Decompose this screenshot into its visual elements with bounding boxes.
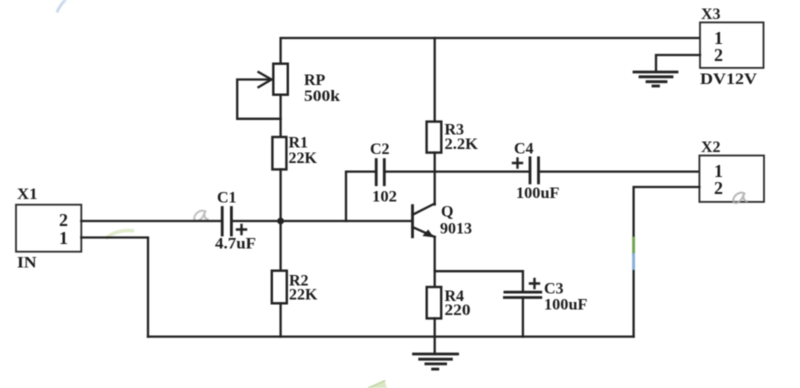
wire: R4 bottom through rail to ground xyxy=(434,318,436,354)
capacitor C4 100uF xyxy=(513,141,560,203)
capacitor C3 100uF xyxy=(504,271,587,336)
svg-text:4.7uF: 4.7uF xyxy=(215,236,256,253)
wire: top rail to R3 xyxy=(434,38,436,122)
wire: X2 pin 2 down to ground rail xyxy=(634,187,700,337)
wire: R1 bottom to node A xyxy=(279,169,281,221)
connector X3 (DV12V) xyxy=(700,6,764,88)
capacitor C2 102 xyxy=(370,141,397,206)
node A junction dot xyxy=(277,218,284,225)
capacitor C1 4.7uF xyxy=(215,190,256,253)
svg-text:100uF: 100uF xyxy=(544,297,588,314)
svg-text:IN: IN xyxy=(17,255,37,272)
resistor R1 22K xyxy=(272,135,317,170)
resistor R2 22K xyxy=(272,271,318,304)
svg-text:RP: RP xyxy=(304,72,326,89)
wire: emitter down to R4 xyxy=(434,237,436,287)
wire: node A to R2 top xyxy=(279,221,281,271)
svg-text:X1: X1 xyxy=(17,186,38,203)
svg-text:100uF: 100uF xyxy=(516,185,560,202)
svg-text:C2: C2 xyxy=(370,141,390,158)
svg-text:2: 2 xyxy=(59,210,68,230)
svg-text:102: 102 xyxy=(372,189,397,206)
wire: X1 pin 1 down to ground rail xyxy=(81,238,148,337)
wire: emitter node to C3 xyxy=(435,270,523,272)
svg-text:2.2K: 2.2K xyxy=(445,136,479,153)
wire: C1 to transistor base xyxy=(233,220,413,222)
wire: X3 pin 2 to ground xyxy=(656,55,700,72)
resistor R3 2.2K xyxy=(427,122,479,154)
wire: C2 right plate to C4 left plate xyxy=(386,170,529,172)
wire: C2 left leg down to base wire xyxy=(346,172,375,221)
wire: bottom ground rail xyxy=(148,335,634,337)
ground (near X3) xyxy=(634,72,677,86)
svg-text:22K: 22K xyxy=(289,287,318,304)
svg-text:DV12V: DV12V xyxy=(700,71,757,88)
wire: X1 pin 2 to C1 xyxy=(81,220,221,222)
wire: RP bottom to R1 top xyxy=(279,95,281,137)
svg-text:X2: X2 xyxy=(701,139,721,156)
svg-text:X3: X3 xyxy=(701,6,721,23)
svg-text:C1: C1 xyxy=(217,190,237,207)
svg-text:1: 1 xyxy=(59,228,68,248)
svg-text:2: 2 xyxy=(714,178,723,198)
wire: R3 bottom to collector xyxy=(434,153,436,205)
svg-text:500k: 500k xyxy=(304,88,340,105)
svg-text:Q: Q xyxy=(441,204,453,221)
wire: +12V top rail from RP to X3 pin 1 xyxy=(281,38,700,65)
wire: C4 to X2 pin 1 xyxy=(540,170,700,172)
potentiometer RP 500k xyxy=(237,64,340,119)
svg-text:22K: 22K xyxy=(289,150,318,167)
resistor R4 220 xyxy=(427,287,471,319)
svg-text:2: 2 xyxy=(714,45,723,65)
svg-text:9013: 9013 xyxy=(440,221,472,238)
wire: R2 bottom to ground rail xyxy=(279,303,281,336)
transistor Q 9013 xyxy=(413,204,473,238)
svg-text:220: 220 xyxy=(445,302,471,319)
ground (main, below R4) xyxy=(414,354,458,369)
connector X1 (IN) xyxy=(16,186,81,272)
svg-text:R1: R1 xyxy=(289,135,309,152)
connector X2 xyxy=(699,139,764,202)
svg-text:C4: C4 xyxy=(514,141,534,158)
svg-text:C3: C3 xyxy=(544,281,564,298)
